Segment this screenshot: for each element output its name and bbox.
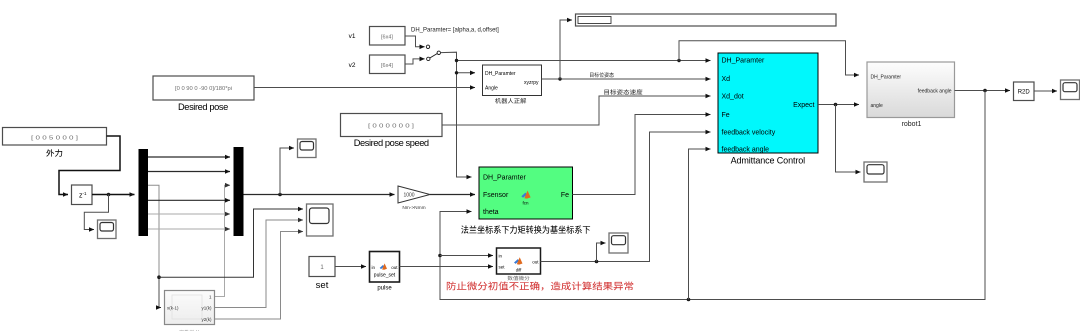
wire Desired pose speed to Xd_dot	[442, 96, 711, 125]
label 外力	[46, 149, 62, 156]
constant v2 [6x4]	[370, 55, 406, 74]
subsystem x(k-1)	[165, 291, 215, 325]
scope1	[98, 220, 117, 239]
svg-text:out: out	[532, 260, 539, 265]
wire gain to Fsensor	[430, 194, 475, 196]
wire diff out to feedback velocity	[541, 132, 711, 262]
subsystem 机器人正解 forward kinematics	[483, 65, 542, 96]
wire v1 to switch upper contact	[405, 36, 425, 47]
wire R2D to scope5	[1034, 90, 1057, 92]
scope4	[864, 162, 887, 182]
svg-text:DH_Paramter: DH_Paramter	[871, 75, 902, 81]
svg-text:Angle: Angle	[485, 86, 498, 92]
label 目标姿态速度	[604, 89, 642, 95]
wire branch up to scope2	[280, 148, 294, 195]
label 法兰坐标系下力矩转换为基坐标系下	[461, 225, 590, 233]
R2D block	[1014, 82, 1035, 101]
svg-text:out: out	[391, 265, 398, 270]
junction feedback loop	[983, 89, 987, 93]
junction diff scope branch	[595, 260, 599, 264]
gain 1000 Nm->Nmm	[398, 186, 430, 203]
wire DH to robot1	[679, 41, 859, 75]
wire DH vertical down to green block	[457, 61, 472, 178]
svg-text:feedback velocity: feedback velocity	[722, 130, 776, 137]
wire riser to feedback angle port	[689, 149, 711, 300]
wire expect branch down to scope4	[836, 105, 861, 173]
constant Desired pose	[153, 76, 254, 100]
junction delay scope branch	[107, 193, 111, 197]
wire demux row3 elbow down	[148, 185, 159, 277]
svg-text:theta: theta	[483, 209, 499, 216]
svg-text:[0 0 90 0 -90 0]/180*pi: [0 0 90 0 -90 0]/180*pi	[175, 86, 232, 92]
svg-text:set: set	[316, 280, 329, 291]
wire mux output to gain	[244, 194, 395, 196]
constant Desired pose speed	[341, 114, 443, 137]
junction DH to admittance	[455, 59, 458, 62]
svg-text:x(k-1): x(k-1)	[167, 306, 179, 311]
robot1 subsystem	[867, 62, 955, 118]
switch contacts and lever	[426, 45, 440, 61]
feedback loop wire down and left to theta	[440, 91, 985, 300]
diff MATLAB function block	[497, 248, 541, 274]
wire demux row2	[148, 171, 230, 173]
svg-text:[ 0 0 0 0 0 0 ]: [ 0 0 0 0 0 0 ]	[368, 124, 415, 130]
label 目标位姿态	[590, 72, 614, 77]
svg-text:Xd_dot: Xd_dot	[722, 94, 744, 101]
wire branch up to scope6	[597, 243, 606, 262]
scope6	[609, 233, 628, 253]
svg-text:v1: v1	[349, 33, 356, 40]
display block top	[576, 14, 837, 26]
mux	[234, 147, 244, 236]
junction row3 to scope riser	[157, 275, 161, 279]
svg-text:angle: angle	[871, 103, 883, 109]
junction xyzrpy display branch	[558, 77, 561, 80]
green block MATLAB function	[479, 167, 573, 219]
junction DH to robot1	[677, 59, 680, 62]
svg-text:1000: 1000	[403, 193, 414, 199]
svg-text:pulse: pulse	[377, 286, 392, 292]
wire y1 to big scope input2	[215, 220, 304, 308]
junction feedback angle riser	[687, 298, 691, 302]
svg-text:in: in	[372, 265, 376, 270]
svg-text:fcn: fcn	[522, 201, 529, 206]
wire subsystem port1 up to mux row3	[215, 185, 231, 296]
svg-text:DH_Paramter: DH_Paramter	[722, 58, 765, 65]
svg-text:DH_Paramter: DH_Paramter	[485, 71, 516, 77]
svg-text:DH_Paramter: DH_Paramter	[483, 175, 526, 182]
scope2	[298, 139, 317, 158]
svg-text:pulse_set: pulse_set	[374, 273, 396, 279]
wire 外力 to unit delay	[59, 136, 120, 195]
wire Expect to robot1 angle	[818, 104, 859, 106]
wire xyzrpy to Xd	[542, 78, 711, 80]
svg-text:diff: diff	[516, 268, 522, 273]
wire row3 junction to big scope input1	[159, 209, 303, 277]
svg-text:[6x4]: [6x4]	[381, 35, 393, 41]
svg-text:[6x4]: [6x4]	[381, 63, 393, 69]
wire Desired pose to Angle	[254, 87, 475, 89]
annotation red warning text	[447, 282, 633, 291]
wire v2 to switch lower contact	[405, 59, 425, 64]
wire demux row4	[148, 199, 230, 201]
svg-text:Desired pose: Desired pose	[178, 102, 228, 112]
svg-text:DH_Paramter= [alpha,a, d,offse: DH_Paramter= [alpha,a, d,offset]	[411, 28, 499, 34]
svg-text:Fe: Fe	[722, 112, 730, 119]
junction DH to kinematics	[455, 71, 458, 74]
svg-text:Desired pose speed: Desired pose speed	[354, 138, 429, 148]
wire Fe out to admittance Fe	[573, 115, 711, 195]
svg-text:xyzrpy: xyzrpy	[524, 80, 539, 86]
constant set	[309, 257, 335, 277]
unit delay z^-1	[72, 185, 93, 205]
wire set to pulse	[335, 266, 366, 268]
svg-text:Admittance Control: Admittance Control	[731, 156, 806, 166]
wire feedback angle to R2D	[955, 90, 1011, 92]
svg-text:Fe: Fe	[561, 192, 569, 199]
admittance control cyan block	[718, 53, 818, 154]
wire demux row6	[148, 228, 230, 230]
svg-text:feedback angle: feedback angle	[918, 89, 952, 95]
label 数值微分	[508, 276, 530, 281]
wire y2 to big scope input3	[215, 232, 304, 320]
wire DH branch to forward kinematics	[457, 72, 476, 74]
svg-text:[ 0 0 5 0 0 0 ]: [ 0 0 5 0 0 0 ]	[31, 136, 79, 142]
svg-text:Nm->Nmm: Nm->Nmm	[402, 205, 425, 211]
svg-text:v2: v2	[349, 62, 356, 69]
pulse MATLAB function block	[370, 252, 400, 283]
svg-text:robot1: robot1	[902, 121, 922, 128]
wire switch output to DH vertical	[441, 52, 711, 60]
wire unit delay to demux	[92, 194, 135, 196]
scope5	[1061, 80, 1080, 100]
wire branch to diff in	[440, 255, 493, 257]
junction expect scope branch	[834, 103, 838, 107]
wire branch to display	[560, 20, 572, 79]
junction diff in branch	[438, 254, 442, 258]
label 机器人正解	[495, 98, 526, 104]
svg-text:y2(k): y2(k)	[202, 317, 213, 322]
svg-text:Xd: Xd	[722, 76, 731, 83]
svg-text:y1(k): y1(k)	[202, 306, 213, 311]
constant v1 [6x4]	[370, 27, 406, 46]
svg-text:R2D: R2D	[1018, 90, 1031, 96]
big scope	[307, 204, 334, 236]
wire branch to scope1	[84, 195, 108, 230]
svg-text:Fsensor: Fsensor	[483, 192, 509, 199]
wire pulse to diff set	[400, 266, 494, 268]
svg-text:feedback angle: feedback angle	[722, 147, 770, 154]
wire demux row1	[148, 156, 230, 158]
junction mux out scope branch	[278, 193, 282, 197]
svg-text:Expect: Expect	[793, 102, 814, 109]
label below subsystem (cut)	[179, 330, 200, 335]
svg-text:set: set	[499, 265, 506, 270]
constant 外力	[3, 128, 107, 146]
svg-text:in: in	[499, 254, 503, 259]
wire demux row5	[148, 213, 230, 215]
demux	[139, 149, 149, 236]
